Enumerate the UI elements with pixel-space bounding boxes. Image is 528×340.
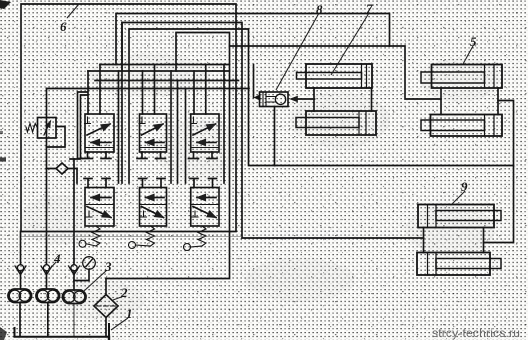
wire: pump1 line: [20, 232, 22, 290]
wire: feed pipe to motor left with arrow: [253, 65, 255, 98]
check valve 2: [41, 265, 52, 275]
riser valve2 mid: [154, 65, 156, 115]
wire: branch y46 to top-right cylinder group: [230, 46, 442, 99]
wire: arrow into motor: [293, 98, 315, 100]
check valve 3: [69, 265, 80, 275]
wire: pump suction drops: [20, 303, 48, 337]
scan left edge dash: [0, 158, 6, 162]
bus line y80.5: [95, 80, 239, 82]
wire: pump2 / relief main line: [46, 89, 48, 265]
wire gap1 vertical b: [121, 23, 123, 184]
riser valve1 mid: [99, 65, 101, 115]
riser valve2 left: [142, 71, 144, 114]
valve V2 lower ports T stubs: [137, 152, 166, 159]
cylinder group 9 lower: [417, 253, 501, 276]
svg-text:9: 9: [461, 179, 468, 194]
pilot circle V1: [79, 240, 86, 247]
relief valve bypass loop: [47, 127, 66, 148]
scan fold line: [21, 236, 242, 238]
riser valve3 mid: [205, 65, 207, 115]
valve section V2 upper box: [139, 114, 167, 152]
wire: stub into valve block left port: [70, 159, 80, 183]
outer enclosure border of distributor block 6: [21, 4, 236, 232]
wire gap3 vertical: [223, 65, 225, 184]
leader 9: [452, 191, 465, 204]
valve section V2 lower box: [140, 188, 167, 227]
cylinder group 7 lower: [296, 111, 376, 135]
svg-text:5: 5: [470, 34, 477, 49]
wire: check line to valve1 inlet: [47, 168, 78, 170]
valve section V1 upper box: [85, 114, 115, 152]
wire: pipe C riser x176 over to return line down to filter: [106, 33, 230, 279]
cylinder group 5 upper: [421, 65, 502, 89]
filter: [94, 279, 118, 337]
check valve diamond: [56, 163, 68, 174]
scan gray blotches: [20, 53, 500, 320]
check valve 1: [15, 265, 26, 275]
pump P3: [63, 290, 87, 304]
valve V2 lower box inlet stubs: [139, 179, 166, 188]
wire: right border of cylinder nets: [484, 101, 514, 243]
leader 2: [113, 296, 124, 300]
wire: left flank pipe of valve1 outer: [78, 92, 88, 159]
svg-text:3: 3: [104, 259, 112, 274]
relief valve box: [38, 118, 57, 139]
wire: cyl5 pair pipes: [441, 88, 498, 115]
cylinder group 9 upper: [418, 205, 501, 228]
bus line y64.5: [100, 64, 230, 66]
wire: cyl9 pair pipes: [424, 228, 484, 253]
hydraulic motor unit 8: [260, 92, 289, 107]
valve V1 lower ports T stubs: [83, 152, 112, 159]
valve section V3 lower box: [191, 188, 219, 227]
valve V3 lower box inlet stubs: [190, 179, 217, 188]
wire gap2 vertical a: [170, 71, 172, 183]
leader 7: [331, 13, 369, 75]
pilot circle V2: [129, 242, 136, 249]
riser valve1 left: [87, 71, 89, 114]
pump P2: [36, 289, 60, 303]
tank manifold: [15, 324, 110, 337]
wire gap2 vertical b: [177, 81, 179, 184]
svg-text:8: 8: [316, 2, 323, 17]
item number labels: [53, 1, 477, 321]
pressure gauge: [74, 257, 95, 281]
leader 3: [84, 270, 107, 291]
wire: motor drain: [274, 107, 276, 166]
bus line y71: [88, 70, 230, 72]
valve V1 lower box inlet stubs: [84, 179, 110, 188]
leader 6: [67, 4, 79, 18]
pilot circle V3: [184, 244, 191, 251]
leader 1: [111, 318, 128, 330]
wire: top pipe A from riser x116 to right cylinders: [116, 14, 390, 65]
valve V3 lower ports T stubs: [189, 152, 218, 159]
cylinder group 5 lower: [421, 115, 502, 137]
leader 5: [463, 46, 473, 64]
cylinder group 7 upper: [297, 64, 373, 88]
valve section V3 upper box: [191, 114, 220, 152]
svg-text:4: 4: [53, 251, 61, 266]
wire gap1 vertical a: [118, 71, 120, 183]
riser valve3 left: [193, 71, 195, 114]
svg-text:6: 6: [60, 19, 67, 34]
wire: left flank pipe of valve1 inner: [81, 95, 88, 159]
wire: pump3 line: [73, 159, 75, 290]
valve section V1 lower box: [85, 188, 114, 227]
wire: line y29 riser x129 over to x248 down to y165.5 across to right border: [129, 29, 514, 166]
wire gap2 vertical c: [185, 89, 187, 184]
leader 8: [276, 13, 319, 90]
svg-text:strcy-techrics.ru: strcy-techrics.ru: [432, 326, 520, 340]
leader lines for labels: [48, 4, 473, 330]
wire: cyl7 pair pipes: [314, 88, 372, 111]
scan corner artifacts: [0, 0, 11, 9]
wire: top pipe B riser x122 right to x242 down to bottom cylinder line: [122, 23, 424, 239]
wire gap1 vertical c: [128, 81, 130, 184]
spring of V2: [147, 226, 155, 246]
svg-text:7: 7: [366, 1, 373, 16]
pump P1: [8, 289, 32, 303]
leader 4: [48, 262, 56, 271]
bus line y88.5: [47, 88, 250, 90]
spring of V1: [92, 226, 100, 246]
spring of V3: [198, 226, 206, 246]
relief valve spring: [26, 124, 38, 133]
